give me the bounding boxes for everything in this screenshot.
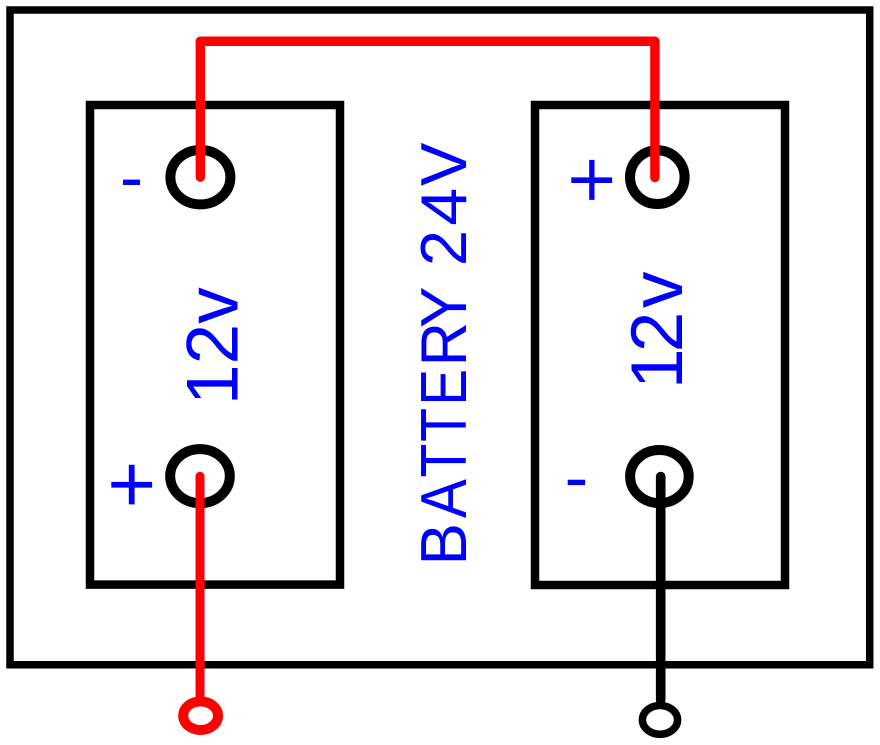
svg-text:A: A xyxy=(408,478,481,518)
svg-text:B: B xyxy=(407,523,480,565)
svg-text:T: T xyxy=(407,444,480,478)
battery B1 body xyxy=(90,105,340,585)
svg-text:T: T xyxy=(407,408,480,442)
label B1 plus sign xyxy=(111,465,152,505)
label B2 minus sign xyxy=(568,480,585,485)
wire B1+ to external positive lead (red) xyxy=(196,476,205,697)
svg-text:2: 2 xyxy=(617,312,698,353)
external positive lead terminal (red ring) xyxy=(183,701,218,730)
svg-text:1: 1 xyxy=(617,348,698,389)
battery B2 body xyxy=(535,105,785,585)
wire B2- to external negative lead (black) xyxy=(656,477,666,701)
svg-text:Y: Y xyxy=(408,287,481,329)
svg-text:v: v xyxy=(617,271,698,308)
svg-text:2: 2 xyxy=(407,230,480,266)
wire series link B1- to B2+ (red) xyxy=(200,41,655,177)
svg-text:V: V xyxy=(407,142,480,186)
svg-text:4: 4 xyxy=(408,188,480,226)
terminal B2 positive (top) xyxy=(630,150,685,204)
label B1 minus sign xyxy=(123,180,140,185)
svg-text:12v: 12v xyxy=(173,287,254,405)
terminal B2 negative (bottom) xyxy=(630,450,689,503)
terminal B1 positive (bottom) xyxy=(170,449,230,503)
label BATTERY 24V xyxy=(407,142,481,566)
terminal B1 negative (top) xyxy=(170,150,230,204)
svg-text:E: E xyxy=(408,369,481,405)
external negative lead terminal (black ring) xyxy=(642,706,677,735)
label B2 voltage 12v xyxy=(617,271,698,389)
label B2 plus sign xyxy=(571,160,612,200)
